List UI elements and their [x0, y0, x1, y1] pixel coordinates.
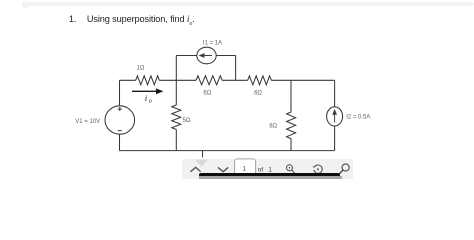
wire: 8-ohm branch bottom [290, 139, 292, 151]
wire: bottom horizontal rail [120, 150, 335, 152]
io current arrow (points right) [132, 90, 157, 92]
wire: R3 to 8-ohm junction and on to top-right corner [271, 79, 334, 81]
wire: loop right vertical down to main wire [235, 56, 237, 81]
wire: top-left horizontal (node A to 1-ohm resistor) [120, 79, 136, 81]
wire: 5-ohm branch top [175, 80, 177, 105]
I1 internal arrow (points left) [203, 55, 212, 57]
rotate circular-arrow icon [313, 165, 322, 173]
wire: 5-ohm branch bottom [175, 130, 177, 151]
page-break tick below bottom rail [202, 151, 204, 158]
resistor R1 1-ohm (top left horizontal) [136, 76, 160, 85]
chevron up icon [190, 167, 200, 171]
I2 internal arrow (points up) [334, 113, 336, 123]
wire: R2 to loop-right junction [222, 79, 248, 81]
wire: current source loop left vertical [175, 56, 177, 81]
wire: V1 bottom to bottom-left corner [119, 134, 121, 150]
wire: right vertical from top-right corner to I2 [334, 80, 336, 107]
problem title text [69, 14, 195, 27]
current source I2 0.5A (circle) [327, 107, 343, 126]
V1 minus sign [118, 130, 122, 132]
label io (italic) [145, 93, 152, 105]
search magnifier icon [337, 164, 349, 176]
current source I1 1A (circle) [197, 47, 216, 64]
pdf viewer toolbar background [182, 159, 353, 179]
resistor R4 5-ohm (vertical) [172, 105, 181, 130]
wire: center junction to 6-ohm R2 [176, 79, 196, 81]
wire: 1-ohm to center junction [159, 79, 176, 81]
wire: left vertical down to V1 top [119, 80, 121, 105]
wire: I1 to loop top-right horizontal [216, 55, 235, 57]
grey shadow band under scrub bar [199, 176, 342, 179]
wire: 8-ohm branch top [290, 80, 292, 112]
wire: loop top-left horizontal to I1 [176, 55, 197, 57]
resistor R2 6-ohm (middle-left horizontal) [196, 76, 222, 85]
grey page-scroll triangle [195, 160, 208, 167]
resistor R5 8-ohm (vertical) [287, 112, 296, 139]
black scrub bar [199, 173, 340, 176]
page number box [235, 159, 256, 177]
voltage source V1 10V (circle) [105, 106, 135, 134]
zoom magnifier icon with dot [287, 165, 296, 174]
resistor R3 6-ohm (middle-right horizontal) [248, 76, 272, 85]
svg-text:1: 1 [242, 166, 246, 173]
chevron down icon [218, 167, 228, 171]
wire: I2 bottom to bottom-right corner [334, 126, 336, 151]
V1 plus sign [118, 107, 122, 111]
faint top scrollbar band [22, 2, 474, 6]
